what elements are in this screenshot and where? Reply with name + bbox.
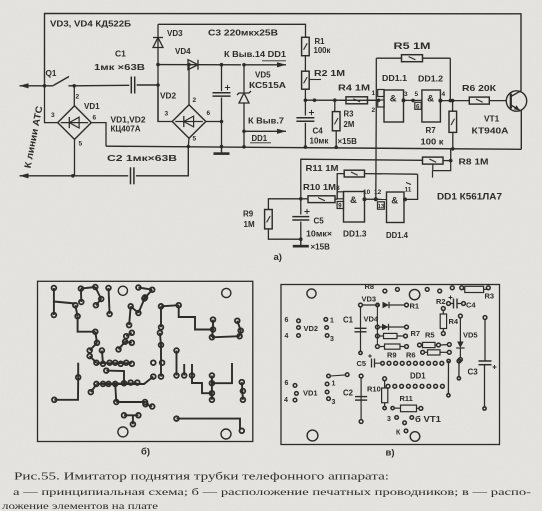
capacitor C4 electrolytic	[304, 100, 306, 115]
wire to pin7 arrow	[244, 130, 286, 132]
svg-text:R4 1М: R4 1М	[338, 83, 370, 93]
svg-text:DD1.1: DD1.1	[382, 73, 407, 83]
svg-text:в): в)	[386, 448, 395, 459]
svg-text:С4: С4	[313, 127, 324, 136]
transistor VT1	[506, 91, 526, 111]
logic gate DD1.3	[344, 192, 365, 223]
svg-text:3: 3	[404, 91, 408, 98]
svg-text:100к: 100к	[314, 46, 331, 55]
logic gate DD1.4	[387, 192, 405, 223]
svg-text:DD1.4: DD1.4	[386, 230, 408, 240]
pin 8 stub DD1.3	[337, 192, 343, 199]
node VD5 bottom on rail	[242, 145, 246, 149]
svg-text:&: &	[390, 94, 397, 105]
svg-text:DD1: DD1	[410, 372, 426, 381]
svg-text:VD1: VD1	[303, 389, 318, 398]
svg-text:б VТ1: б VТ1	[415, 415, 442, 424]
node junction left border	[43, 84, 47, 88]
resistor R6	[469, 97, 489, 104]
node pin7 branch junction	[242, 130, 246, 134]
svg-text:3: 3	[51, 112, 55, 119]
wire to pin14 arrow	[244, 64, 286, 66]
node R3 top junction	[333, 98, 337, 102]
wire R8 right junction	[443, 160, 451, 162]
pads above C2	[327, 374, 331, 378]
svg-text:13: 13	[378, 204, 384, 210]
node VD2 bottom on negative rail	[187, 145, 191, 149]
resistor R3 board	[462, 288, 465, 290]
svg-text:R7: R7	[426, 126, 437, 135]
node VD3 branch junction on main wire	[156, 83, 160, 87]
node R2 C4 junction	[304, 98, 308, 102]
capacitor C2	[130, 167, 132, 184]
wire C2 to VD2 pin5 branch	[136, 147, 188, 176]
node VD1 bottom junction	[71, 174, 75, 178]
capacitor C4 board	[447, 302, 451, 306]
svg-text:а): а)	[274, 252, 282, 263]
node C3 bottom on rail	[220, 145, 224, 149]
wire feedback down to DD1.4 out	[405, 174, 418, 199]
svg-text:R6 20К: R6 20К	[462, 83, 497, 93]
node C4 bottom on rail	[304, 145, 308, 149]
svg-text:2: 2	[193, 97, 197, 104]
svg-text:2: 2	[372, 107, 376, 114]
svg-text:VD3, VD4 КД522Б: VD3, VD4 КД522Б	[50, 19, 131, 29]
tick stub R1-R2 node	[309, 79, 321, 81]
svg-text:5: 5	[193, 136, 197, 143]
resistor R4	[340, 99, 346, 101]
svg-text:R9: R9	[387, 351, 397, 360]
svg-text:5: 5	[415, 91, 419, 98]
wire VD1 pin5 to bottom line	[74, 139, 76, 175]
svg-text:ложение элементов на плате: ложение элементов на плате	[2, 502, 158, 511]
svg-text:DD1.2: DD1.2	[418, 74, 443, 84]
pin 4 output DD1.2	[438, 99, 442, 103]
svg-text:1мк ×63В: 1мк ×63В	[94, 62, 145, 72]
resistor R6 board	[421, 350, 425, 354]
pin 9 stub DD1.3	[337, 202, 343, 209]
pcb panel frame	[38, 281, 253, 441]
resistor R7 board	[376, 334, 380, 338]
svg-text:VD5: VD5	[463, 331, 478, 340]
svg-text:10мк: 10мк	[310, 137, 330, 146]
bridge rectifier VD1	[58, 106, 92, 140]
wire DD1.1 out to DD1.2 in	[404, 99, 422, 101]
svg-text:4: 4	[284, 397, 288, 404]
svg-text:VT1: VT1	[484, 114, 500, 124]
wire +supply top rail	[45, 14, 522, 92]
svg-text:R6: R6	[406, 351, 416, 360]
diode VD3	[153, 38, 163, 48]
wire R11 left to DD1.3 input	[337, 174, 344, 200]
svg-text:R1: R1	[410, 302, 420, 311]
svg-text:DD1 К561ЛА7: DD1 К561ЛА7	[437, 192, 502, 202]
svg-text:С3: С3	[468, 368, 479, 377]
svg-text:С2 1мк×63В: С2 1мк×63В	[107, 153, 177, 163]
resistor R2	[302, 71, 310, 89]
wire VD4 line	[158, 64, 241, 66]
svg-text:1: 1	[330, 318, 334, 325]
wire R11 right to feedback line	[365, 173, 418, 176]
dip pads row 1	[387, 361, 391, 365]
svg-text:К Выв.14 DD1: К Выв.14 DD1	[224, 50, 287, 59]
svg-text:Q1: Q1	[46, 69, 57, 78]
node line terminal B	[20, 175, 73, 177]
svg-text:&: &	[350, 195, 357, 206]
wire switch to node 2	[69, 85, 75, 87]
svg-text:VD1: VD1	[84, 102, 100, 111]
wire VD2 pin2 to VD4 line	[188, 65, 190, 105]
svg-text:1М: 1М	[244, 220, 255, 229]
svg-text:VD4: VD4	[364, 315, 379, 324]
svg-text:6: 6	[285, 317, 289, 324]
svg-text:10: 10	[363, 189, 371, 196]
wire R3 to rail	[335, 131, 337, 148]
svg-text:DD1: DD1	[252, 134, 268, 143]
pin 2 stub DD1.1	[378, 100, 384, 107]
svg-text:R5: R5	[425, 331, 435, 340]
resistor R11	[344, 170, 364, 177]
svg-text:DD1.3: DD1.3	[343, 229, 367, 239]
svg-text:R11: R11	[400, 394, 413, 403]
top row pads	[383, 289, 387, 293]
node C3 top junction	[220, 63, 224, 67]
node VD4 wire junction	[156, 63, 160, 67]
bridge rectifier VD2	[172, 105, 206, 139]
zener diode VD5	[243, 65, 245, 92]
resistor R10	[301, 198, 308, 200]
resistor R4 board	[441, 307, 445, 311]
wire R8 bottom hook	[433, 161, 451, 171]
node timing C5 junction	[299, 197, 303, 201]
pcb traces	[53, 288, 55, 315]
tick mark	[406, 183, 411, 185]
ground symbol 1	[221, 147, 223, 154]
svg-text:R11 1М: R11 1М	[306, 163, 339, 173]
wire DD1.3 out to DD1.4 in	[365, 198, 387, 200]
wire R2 to node	[304, 89, 306, 100]
svg-text:VD2: VD2	[304, 324, 319, 333]
node VD1 top junction	[72, 84, 76, 88]
svg-text:3: 3	[332, 399, 336, 406]
wire VD1-6 to negative rail	[92, 123, 107, 147]
wire VD2 pin5 to rail	[187, 138, 190, 146]
capacitor C1	[130, 77, 132, 94]
resistor R7 vertical	[452, 101, 454, 112]
svg-text:С1: С1	[115, 49, 126, 59]
svg-text:R7: R7	[411, 329, 421, 338]
diode VD4	[188, 60, 198, 70]
svg-text:6: 6	[93, 115, 97, 122]
svg-text:К Выв.7: К Выв.7	[248, 117, 284, 126]
svg-text:6: 6	[416, 104, 420, 111]
resistor R5 board	[418, 343, 422, 347]
svg-text:2М: 2М	[344, 120, 355, 129]
node VD5 top junction	[242, 63, 246, 67]
svg-text:3: 3	[387, 416, 391, 423]
svg-text:R10 1М: R10 1М	[303, 182, 336, 192]
svg-text:6: 6	[207, 110, 211, 117]
svg-text:R2: R2	[436, 297, 446, 306]
wire line A to switch	[45, 85, 54, 87]
wire collector to top rail	[519, 90, 522, 92]
resistor R3	[334, 100, 336, 111]
pin 6 stub DD1.2	[415, 102, 421, 109]
pin 11 output DD1.4	[403, 197, 407, 201]
resistor R9	[268, 199, 300, 210]
svg-text:С5: С5	[357, 359, 367, 368]
pin 3 output DD1.1	[402, 98, 406, 102]
node gating junction	[374, 197, 378, 201]
wire gating vertical to DD1.1	[375, 100, 378, 199]
svg-text:R1: R1	[315, 37, 326, 46]
svg-text:R4: R4	[449, 317, 459, 326]
svg-text:×15В: ×15В	[311, 243, 331, 252]
placement panel frame	[281, 285, 500, 445]
svg-text:Рис.55. Имитатор поднятия труб: Рис.55. Имитатор поднятия трубки телефон…	[14, 472, 389, 483]
jumper wires board	[447, 361, 449, 393]
svg-text:&: &	[391, 196, 398, 207]
dip pads row 2	[386, 384, 390, 388]
svg-text:R9: R9	[243, 210, 254, 219]
svg-text:10мк×: 10мк×	[306, 230, 332, 239]
wire node to C1	[74, 84, 129, 87]
svg-text:11: 11	[405, 187, 412, 194]
svg-text:8: 8	[336, 185, 340, 192]
svg-text:С2: С2	[343, 389, 354, 398]
svg-text:3: 3	[330, 336, 334, 343]
wire DD1.2 out to R6	[440, 100, 469, 102]
wire R5 right vertical	[449, 58, 451, 100]
svg-text:5: 5	[79, 141, 83, 148]
wire VD2 pin3 to C1 branch	[158, 85, 172, 122]
node line terminal A	[20, 85, 45, 87]
svg-text:1: 1	[332, 381, 336, 388]
wire R6 to base	[489, 100, 507, 102]
wire top inner rail to R1	[158, 24, 306, 37]
wire VD3 branch vertical	[157, 24, 159, 121]
svg-text:2: 2	[76, 94, 80, 101]
svg-text:R5 1М: R5 1М	[394, 41, 431, 51]
svg-text:VD4: VD4	[175, 47, 191, 56]
svg-text:R2 1М: R2 1М	[314, 69, 345, 78]
pcb mounting holes	[118, 286, 127, 295]
label K linii ATS	[22, 105, 45, 169]
wire VD2 pin6 to C3 branch	[206, 121, 222, 123]
pin 13 stub DD1.4	[378, 202, 385, 209]
placement mounting holes	[307, 289, 316, 298]
wire timing line to R8	[301, 159, 423, 199]
diode VD3 board	[359, 303, 363, 307]
svg-text:VD1,VD2: VD1,VD2	[111, 116, 147, 125]
svg-text:а — принципиальная схема; б —: а — принципиальная схема; б — расположен…	[13, 487, 531, 498]
wire R5 left vertical	[375, 58, 377, 100]
svg-text:4: 4	[442, 91, 446, 98]
node R7 bottom on rail	[451, 147, 455, 151]
svg-text:R8 1М: R8 1М	[459, 157, 489, 167]
svg-text:6: 6	[285, 380, 289, 387]
wire R1 to R2	[304, 56, 306, 71]
svg-text:КС515А: КС515А	[249, 81, 286, 90]
wire C1 to VD2 branch vertical	[137, 84, 158, 86]
svg-text:×15В: ×15В	[338, 137, 358, 146]
svg-text:R3: R3	[344, 110, 355, 119]
logic gate DD1.1	[384, 90, 404, 122]
svg-text:VD5: VD5	[255, 71, 271, 80]
pin 1 stub DD1.1	[378, 90, 384, 97]
svg-text:С3 220мкх25В: С3 220мкх25В	[208, 28, 278, 38]
svg-text:R3: R3	[485, 292, 495, 301]
wire emitter to rail	[520, 110, 521, 112]
logic gate DD1.2	[422, 90, 441, 122]
svg-text:С5: С5	[314, 217, 325, 226]
svg-text:VD2: VD2	[160, 91, 177, 101]
capacitor C5 electrolytic	[300, 199, 302, 215]
svg-text:С4: С4	[466, 301, 476, 310]
resistor R5	[376, 57, 401, 59]
svg-text:12: 12	[374, 189, 382, 196]
wire to C2	[73, 175, 128, 177]
wire timing node horizontal	[305, 99, 378, 101]
svg-text:R8: R8	[365, 282, 375, 291]
node R3 bottom on rail	[334, 146, 338, 150]
pcb pads	[52, 286, 57, 291]
svg-text:КТ940А: КТ940А	[472, 126, 509, 136]
pin 10 output DD1.3	[363, 197, 367, 201]
svg-text:1: 1	[372, 90, 376, 97]
wire collector-emitter right vertical to negative rail	[520, 111, 522, 150]
wire R8 stub down	[432, 171, 434, 178]
svg-text:VD3: VD3	[362, 295, 377, 304]
svg-text:б): б)	[141, 447, 150, 458]
resistor R8	[423, 157, 444, 164]
svg-text:R10: R10	[367, 385, 381, 394]
svg-text:VD3: VD3	[167, 29, 183, 38]
wire negative rail	[106, 146, 521, 149]
wire VD1 pin2 to top node	[73, 86, 75, 106]
capacitor C3 electrolytic	[221, 65, 223, 92]
wire VD1 pin3 to left border	[45, 86, 58, 123]
resistor R9 board	[376, 345, 380, 349]
capacitor C3 board	[483, 316, 487, 320]
diode VD4 board	[376, 325, 380, 329]
svg-text:4: 4	[285, 333, 289, 340]
svg-text:100 к: 100 к	[421, 138, 445, 147]
node DD1.1 input junction	[377, 99, 381, 103]
svg-text:К: К	[396, 430, 401, 437]
resistor R1	[302, 37, 310, 55]
ground symbol 2	[299, 237, 303, 241]
svg-text:&: &	[427, 94, 434, 105]
switch Q1	[54, 77, 70, 86]
svg-text:С1: С1	[343, 316, 354, 325]
node small junction	[313, 98, 317, 102]
wire column board	[376, 307, 378, 345]
svg-text:3: 3	[165, 111, 169, 118]
svg-text:КЦ407А: КЦ407А	[111, 125, 141, 134]
